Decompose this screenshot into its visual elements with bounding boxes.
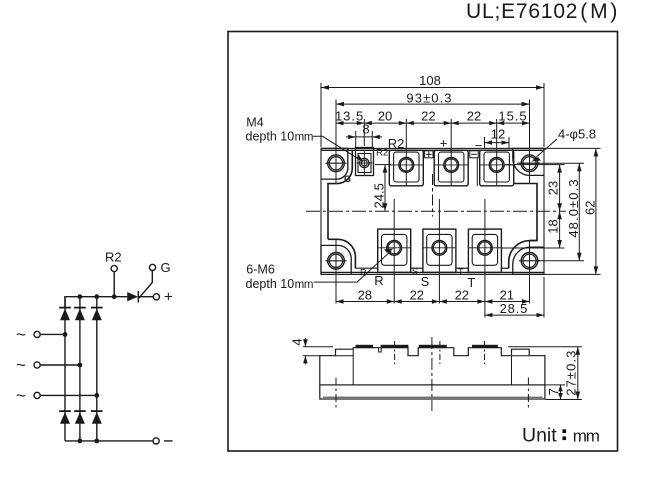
terminal plate T/- side: [472, 345, 497, 348]
case top edge: [321, 149, 544, 151]
boss top under right bump: [512, 355, 530, 357]
ext 7 / baseplate: [546, 384, 566, 386]
terminal plus block: [434, 150, 468, 186]
dim 8: [346, 122, 382, 148]
dim 4: [290, 338, 333, 365]
svg-text:24.5: 24.5: [371, 183, 386, 208]
baseplate side: [320, 385, 545, 399]
terminal +: [138, 289, 173, 306]
wire column 2: [79, 297, 81, 441]
svg-text:R2: R2: [388, 136, 405, 151]
node bottom-col3: [94, 439, 99, 444]
mounting hole top-right: [519, 155, 540, 172]
notchlet between G and R2 cells: [379, 348, 382, 352]
svg-text:6-M6: 6-M6: [246, 262, 275, 276]
partition line between plus and minus cells: [476, 158, 478, 186]
svg-text:S: S: [412, 267, 418, 277]
plus engraved box: [425, 151, 433, 158]
svg-text:4-φ5.8: 4-φ5.8: [558, 127, 596, 142]
wire top DC bus: [65, 297, 127, 307]
svg-text:8: 8: [362, 122, 369, 137]
dim 93±0.3: [336, 91, 530, 107]
dim 62: [582, 148, 598, 274]
svg-text:−: −: [475, 138, 483, 153]
svg-text:22: 22: [467, 109, 481, 124]
dim 24.5 vertical: [371, 165, 391, 212]
svg-text:depth 10mm: depth 10mm: [246, 129, 314, 143]
ext lines right: [544, 147, 601, 149]
node bottom-col2: [78, 439, 83, 444]
terminal S block: [423, 229, 456, 272]
svg-text:~: ~: [16, 325, 26, 344]
leader 6-M6 depth 10mm: [246, 248, 394, 290]
centerline vertical module axis: [432, 174, 434, 217]
terminal plate G side: [356, 345, 373, 348]
svg-text:~: ~: [16, 386, 26, 405]
dim 18: [546, 211, 562, 248]
svg-text:G: G: [161, 260, 171, 275]
case left side wall: [328, 184, 337, 240]
centerline main vertical side: [431, 337, 433, 411]
pad bottom-right: [509, 241, 544, 275]
ext lines bottom: [335, 240, 337, 304]
svg-text:M4: M4: [246, 116, 263, 130]
svg-text:UL;E76102(M): UL;E76102(M): [466, 0, 618, 23]
svg-text:4: 4: [290, 338, 305, 345]
boss top under left bump: [336, 355, 354, 357]
leader M4 depth 10mm: [246, 116, 364, 163]
terminal T block: [468, 229, 501, 272]
svg-text:13.5: 13.5: [335, 109, 364, 124]
svg-text:22: 22: [421, 109, 435, 124]
terminal plate S/+ side: [419, 345, 446, 348]
terminal R block: [378, 229, 411, 272]
dim 108: [321, 73, 544, 90]
mounting hole bottom-left: [326, 252, 347, 269]
boss left inner edge: [352, 349, 354, 385]
svg-text:22: 22: [455, 288, 469, 303]
border frame: [228, 32, 618, 452]
svg-text:~: ~: [16, 356, 26, 375]
pad top-right: [513, 148, 544, 175]
terminal R2: [105, 250, 122, 297]
svg-text:22: 22: [410, 288, 424, 303]
svg-text:+: +: [440, 135, 448, 150]
svg-text:G: G: [344, 174, 351, 184]
svg-text:T: T: [458, 267, 464, 277]
baseplate outline: [321, 148, 544, 274]
wire column 3: [96, 297, 98, 441]
centerline col R: [394, 341, 396, 364]
svg-text:15.5: 15.5: [498, 109, 527, 124]
svg-text:7: 7: [546, 388, 561, 395]
svg-text:+: +: [164, 289, 173, 306]
svg-text:48.0±0.3: 48.0±0.3: [566, 178, 581, 237]
svg-text:23: 23: [546, 181, 561, 195]
minus engraved box: [470, 151, 478, 158]
svg-text:Unit: Unit: [522, 424, 557, 446]
svg-text:28.5: 28.5: [500, 301, 529, 316]
terminal minus block: [480, 150, 514, 186]
baseplate bottom inner line: [323, 396, 543, 398]
wire bottom DC bus: [65, 440, 153, 442]
wire column 1: [64, 297, 66, 441]
diode D3 top col3: [91, 308, 103, 321]
leader 4-phi5.8: [531, 127, 596, 162]
svg-text:R2: R2: [376, 148, 388, 159]
unit note: [522, 424, 600, 446]
diode D4 bottom col1: [59, 411, 71, 424]
dim 13.5/20/22/22/15.5: [335, 109, 530, 126]
terminal R2 block: [389, 150, 423, 186]
pad bottom-left: [321, 239, 355, 274]
ext 27 top: [508, 346, 582, 348]
node bus-col3: [94, 294, 99, 299]
thyristor: [127, 271, 152, 303]
diode D2 top col2: [74, 308, 86, 321]
centerline col T: [484, 341, 486, 364]
svg-text:18: 18: [546, 219, 561, 233]
centerline boss right: [527, 378, 529, 410]
dim 27±0.3: [563, 347, 580, 400]
mounting hole top-left: [326, 155, 347, 172]
centerline boss left: [335, 378, 337, 410]
case bottom lip: [355, 267, 508, 269]
AC terminal 2: [16, 356, 82, 375]
dim 7: [546, 385, 563, 400]
diode D1 top col1: [59, 308, 71, 321]
dim 48.0±0.3: [566, 163, 582, 261]
terminal minus: [153, 438, 173, 444]
AC terminal 3: [16, 386, 99, 405]
case bottom edge: [321, 271, 544, 273]
ext lines top: [320, 83, 322, 147]
node bus-col2: [78, 294, 83, 299]
boss right inner edge: [511, 349, 513, 385]
side view dims: [290, 338, 582, 400]
terminal crosshairs: [357, 150, 515, 248]
side body outline: [320, 348, 545, 385]
dim 23: [546, 165, 562, 212]
terminal G (M4) block: [356, 148, 374, 176]
svg-text:R: R: [374, 273, 383, 288]
dim 12: [485, 127, 510, 150]
AC terminal 1: [16, 325, 67, 344]
terminal G: [149, 260, 170, 275]
dim 28/22/22/21: [336, 288, 530, 304]
svg-text:depth 10mm: depth 10mm: [246, 277, 314, 291]
pad top-left: [321, 148, 352, 183]
svg-text:93±0.3: 93±0.3: [406, 91, 452, 106]
diode D6 bottom col3: [91, 411, 103, 424]
svg-text:62: 62: [582, 200, 597, 214]
dim 28.5: [485, 301, 544, 317]
svg-text:28: 28: [358, 288, 372, 303]
mounting hole bottom-right: [519, 252, 540, 269]
node bus-R2 tap: [112, 294, 117, 299]
terminal plate R2/R side: [381, 345, 408, 348]
centerline horizontal: [306, 210, 566, 212]
svg-text:108: 108: [419, 73, 441, 88]
centerline col S: [439, 341, 441, 364]
case right side wall: [514, 184, 538, 241]
svg-text:mm: mm: [573, 426, 600, 445]
diode D5 bottom col2: [74, 411, 86, 424]
svg-text:R2: R2: [105, 250, 122, 265]
svg-text:27±0.3: 27±0.3: [563, 349, 578, 395]
svg-text:20: 20: [378, 109, 392, 124]
svg-text:12: 12: [491, 127, 505, 142]
